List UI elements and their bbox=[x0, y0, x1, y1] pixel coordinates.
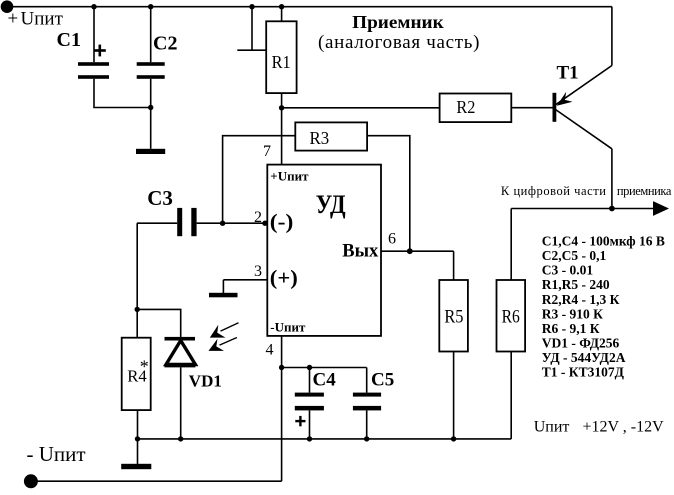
svg-text:R1: R1 bbox=[272, 52, 291, 72]
label C1 plus bbox=[94, 45, 106, 57]
wire pin3 input bbox=[223, 279, 267, 281]
wire C3 left bbox=[137, 222, 177, 224]
node junction pin4-C4C5 bbox=[279, 365, 284, 370]
svg-text:-Uпит: -Uпит bbox=[270, 320, 306, 335]
svg-text:Uпит: Uпит bbox=[534, 419, 570, 436]
svg-text:- Uпит: - Uпит bbox=[27, 442, 86, 466]
svg-text:R6 - 9,1 К: R6 - 9,1 К bbox=[542, 321, 600, 336]
node junction C5-rail bbox=[364, 436, 369, 441]
wire R2 to T1 base bbox=[511, 107, 553, 109]
node junction C4 top bbox=[307, 365, 312, 370]
svg-text:+: + bbox=[8, 9, 19, 30]
wire pin3 ground stub bbox=[222, 280, 224, 294]
svg-text:приемника: приемника bbox=[617, 184, 672, 198]
svg-text:R5: R5 bbox=[444, 306, 463, 327]
svg-text:R3: R3 bbox=[310, 128, 330, 148]
wire top +U rail bbox=[7, 6, 612, 8]
photodiode VD1 bbox=[165, 337, 196, 366]
svg-text:К цифровой части: К цифровой части bbox=[501, 184, 606, 198]
svg-text:С2,С5 - 0,1: С2,С5 - 0,1 bbox=[542, 248, 607, 263]
wire T1 emitter to rail bbox=[611, 7, 613, 66]
wire C4 bottom lead bbox=[309, 410, 311, 439]
wire pin7 lead bbox=[281, 108, 283, 165]
svg-text:+Uпит: +Uпит bbox=[270, 168, 309, 183]
light arrow 2 bbox=[209, 338, 237, 351]
node junction C1C2 bbox=[148, 105, 153, 110]
svg-text:(аналоговая часть): (аналоговая часть) bbox=[318, 32, 480, 53]
node junction stub-rail bbox=[249, 4, 254, 9]
wire pin6 output bbox=[381, 250, 454, 252]
svg-text:3: 3 bbox=[254, 263, 262, 280]
resistor R5 bbox=[439, 280, 468, 352]
svg-text:C1: C1 bbox=[57, 29, 81, 51]
node junction R1-base bbox=[279, 105, 284, 110]
op-amp UD box bbox=[267, 165, 381, 336]
svg-text:(+): (+) bbox=[270, 266, 298, 290]
wire C4 C5 top line bbox=[282, 367, 367, 369]
capacitor C2 bbox=[137, 62, 165, 79]
wire R6 bottom lead bbox=[510, 352, 512, 439]
svg-text:+12V , -12V: +12V , -12V bbox=[583, 419, 665, 436]
node junction R1-rail bbox=[279, 4, 284, 9]
wire pin4 vertical bbox=[281, 336, 283, 481]
svg-text:Т1: Т1 bbox=[557, 63, 579, 84]
resistor R4 bbox=[122, 338, 151, 410]
wire left vertical to R4 bbox=[136, 223, 138, 338]
svg-text:4: 4 bbox=[266, 342, 274, 359]
svg-text:VD1: VD1 bbox=[189, 372, 222, 391]
wire R3 left lead bbox=[223, 136, 296, 224]
svg-text:Вых: Вых bbox=[342, 241, 378, 262]
ground bar pin3 bbox=[209, 293, 238, 298]
output arrowhead bbox=[653, 201, 669, 216]
svg-text:С3 - 0.01: С3 - 0.01 bbox=[542, 263, 594, 278]
node terminal -Upit bbox=[24, 474, 38, 488]
wire -U bottom line bbox=[31, 480, 282, 482]
node junction VD1-rail bbox=[178, 436, 183, 441]
capacitor C4 bbox=[295, 393, 324, 411]
wire C1 bottom lead bbox=[94, 79, 151, 108]
wire ground rail bbox=[138, 438, 512, 440]
svg-text:(-): (-) bbox=[270, 210, 294, 234]
wire R5 bottom lead bbox=[453, 352, 455, 439]
capacitor C5 bbox=[353, 393, 381, 411]
svg-text:*: * bbox=[140, 356, 149, 376]
svg-text:С1,С4 - 100мкф 16 В: С1,С4 - 100мкф 16 В bbox=[542, 234, 665, 249]
svg-text:6: 6 bbox=[388, 230, 396, 247]
svg-text:С3: С3 bbox=[147, 186, 173, 210]
node junction R5-rail bbox=[451, 436, 456, 441]
wire R1 top lead bbox=[281, 7, 283, 22]
node output junction bbox=[609, 206, 615, 212]
resistor R1 bbox=[266, 21, 296, 93]
svg-text:7: 7 bbox=[263, 143, 271, 160]
node junction C4-rail bbox=[307, 436, 312, 441]
resistor R2 bbox=[440, 94, 512, 123]
node junction feedback-output bbox=[407, 248, 413, 254]
resistor R6 bbox=[497, 280, 526, 352]
light arrow 1 bbox=[210, 323, 239, 338]
wire C2 bottom lead bbox=[150, 79, 152, 149]
svg-text:Приемник: Приемник bbox=[352, 12, 444, 32]
svg-text:R1,R5 - 240: R1,R5 - 240 bbox=[542, 277, 610, 292]
wire ground stub bbox=[137, 439, 139, 464]
wire R1 bottom lead bbox=[281, 93, 283, 108]
wire stub vertical bbox=[251, 7, 253, 51]
resistor R3 bbox=[295, 122, 367, 150]
wire output to arrow bbox=[612, 208, 654, 210]
ground bar below C2 bbox=[136, 149, 165, 154]
wire output to R6 bbox=[511, 208, 612, 210]
wire R6 top lead bbox=[510, 209, 512, 281]
wire pin2 input bbox=[197, 222, 268, 224]
svg-text:R6: R6 bbox=[502, 306, 520, 327]
wire VD1 bottom lead bbox=[180, 367, 182, 439]
wire C1 top lead bbox=[93, 7, 95, 63]
svg-text:R2: R2 bbox=[456, 97, 475, 117]
svg-text:Т1 - КТ3107Д: Т1 - КТ3107Д bbox=[542, 365, 625, 380]
transistor T1 bbox=[553, 66, 612, 149]
svg-text:2: 2 bbox=[254, 209, 262, 226]
node terminal +Upit bbox=[1, 0, 14, 13]
node junction C1-rail bbox=[91, 4, 96, 9]
node junction R4-rail bbox=[135, 436, 140, 441]
node pin2 dot bbox=[262, 221, 267, 226]
wire R5 top lead bbox=[453, 251, 455, 280]
svg-text:R3 - 910 К: R3 - 910 К bbox=[542, 306, 603, 321]
wire C2 top lead bbox=[150, 7, 152, 63]
ground bar bottom left bbox=[121, 464, 151, 469]
label parts list bbox=[542, 234, 665, 380]
svg-text:VD1 - ФД256: VD1 - ФД256 bbox=[542, 336, 620, 351]
wire C4 top lead bbox=[309, 368, 311, 393]
svg-text:С4: С4 bbox=[313, 370, 337, 391]
capacitor C3 bbox=[177, 208, 196, 236]
node junction C2-rail bbox=[148, 4, 153, 9]
svg-text:Uпит: Uпит bbox=[21, 9, 64, 30]
wire stub horizontal bbox=[237, 49, 266, 51]
wire branch to VD1 bbox=[137, 309, 181, 337]
svg-text:УД: УД bbox=[316, 190, 346, 219]
svg-text:R2,R4 - 1,3 К: R2,R4 - 1,3 К bbox=[542, 292, 620, 307]
wire C5 top lead bbox=[366, 368, 368, 393]
wire R4 bottom lead bbox=[137, 410, 139, 439]
svg-text:УД - 544УД2А: УД - 544УД2А bbox=[542, 350, 626, 365]
wire C5 bottom lead bbox=[366, 410, 368, 439]
svg-text:C2: C2 bbox=[153, 32, 177, 54]
node junction R3-pin2 bbox=[220, 221, 225, 226]
wire base line to R2 bbox=[282, 107, 440, 109]
svg-text:С5: С5 bbox=[371, 370, 394, 391]
node junction R4-VD1 bbox=[135, 307, 140, 312]
capacitor C1 bbox=[78, 62, 109, 79]
wire T1 collector down bbox=[611, 149, 613, 209]
wire R3 right lead bbox=[367, 136, 410, 252]
label C4 plus bbox=[295, 416, 305, 426]
